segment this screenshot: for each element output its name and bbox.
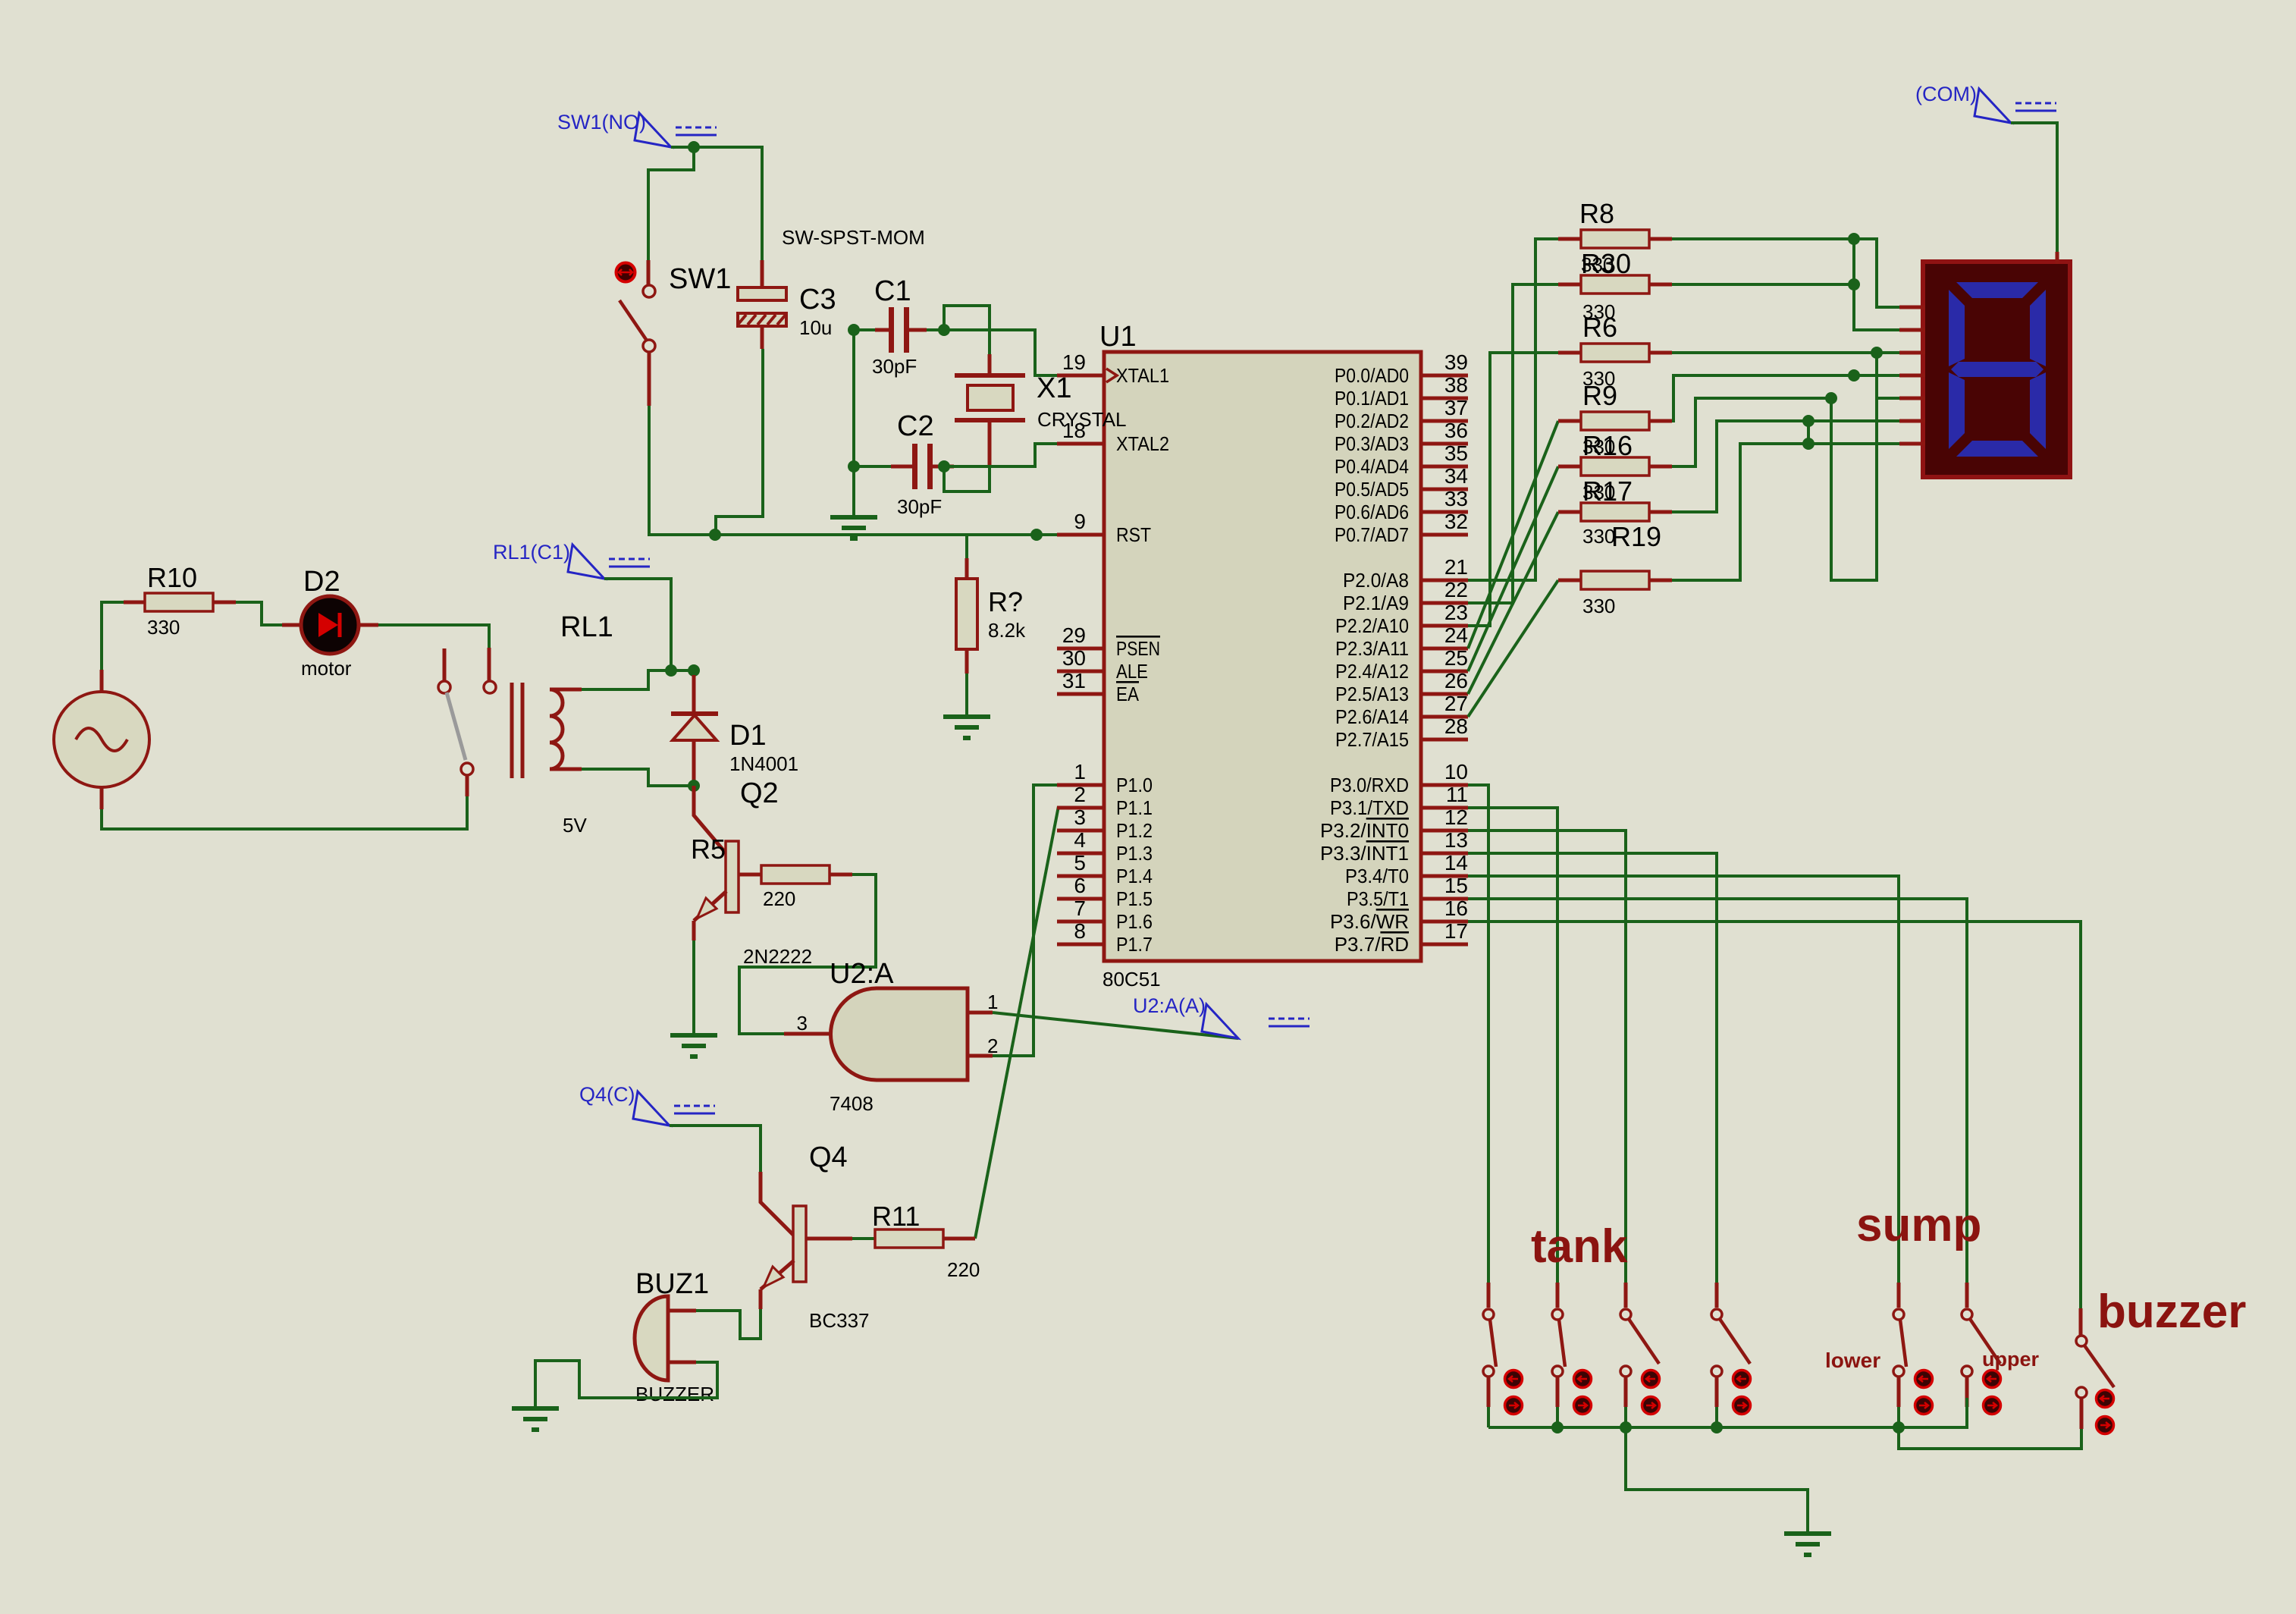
svg-text:7: 7	[1074, 896, 1086, 920]
svg-text:P0.2/AD2: P0.2/AD2	[1335, 410, 1409, 432]
svg-text:C2: C2	[897, 410, 934, 442]
wire P3.2 to tank switch 3	[1468, 831, 1626, 1283]
ground (Q2)	[670, 1035, 717, 1057]
wire SW1/C3 to RST rail	[649, 406, 1057, 535]
display segments (digit 8)	[1949, 282, 2046, 457]
svg-text:10: 10	[1444, 760, 1468, 783]
wire R10 to D2	[236, 602, 282, 625]
svg-text:16: 16	[1444, 896, 1468, 920]
svg-text:ALE: ALE	[1116, 660, 1148, 683]
svg-text:5: 5	[1074, 851, 1086, 875]
svg-text:30pF: 30pF	[897, 495, 942, 518]
transistor Q4	[793, 1206, 806, 1282]
tank switch 3	[1624, 1283, 1628, 1308]
wire probe RL1(C1) to coil/D1	[604, 579, 671, 670]
resistor R? 8.2k	[965, 535, 968, 558]
svg-text:3: 3	[797, 1012, 808, 1035]
LED D2 motor	[282, 623, 303, 627]
svg-text:P1.4: P1.4	[1116, 865, 1153, 887]
svg-text:R11: R11	[872, 1201, 920, 1232]
wire buzzer bus	[1899, 1427, 2081, 1449]
display pin stubs	[1899, 307, 1925, 444]
wire P3.0 to tank switch 1	[1468, 785, 1488, 1283]
svg-text:P2.0/A8: P2.0/A8	[1343, 569, 1409, 592]
sump upper switch	[1965, 1283, 1969, 1308]
svg-text:11: 11	[1446, 783, 1468, 806]
svg-text:R8: R8	[1579, 198, 1614, 229]
svg-text:330: 330	[1582, 525, 1615, 548]
svg-text:R10: R10	[147, 562, 197, 593]
transistor Q2	[726, 841, 739, 912]
U1 pin stubs left	[1057, 375, 1104, 944]
svg-text:2: 2	[1074, 783, 1086, 806]
wire C1 left / C2 left to ground	[854, 330, 875, 466]
svg-text:26: 26	[1444, 669, 1468, 692]
svg-text:P0.7/AD7: P0.7/AD7	[1335, 523, 1409, 546]
svg-text:25: 25	[1444, 646, 1468, 670]
svg-text:BC337: BC337	[809, 1309, 870, 1332]
svg-text:U1: U1	[1099, 321, 1137, 353]
wire AC bottom rail to relay pole	[102, 796, 467, 829]
sump lower switch	[1897, 1283, 1901, 1308]
svg-text:P2.4/A12: P2.4/A12	[1335, 660, 1409, 683]
svg-text:18: 18	[1062, 419, 1086, 442]
wire P2.3 to R9 (diagonal)	[1468, 421, 1558, 648]
svg-text:BUZ1: BUZ1	[635, 1268, 709, 1300]
wire R9 to display pin4	[1672, 375, 1899, 421]
svg-text:P1.2: P1.2	[1116, 819, 1153, 842]
svg-text:30: 30	[1062, 646, 1086, 670]
capacitor C1	[889, 307, 894, 353]
wire probe SW1(NO) node	[671, 147, 762, 260]
resistor R11	[806, 1237, 852, 1241]
wire buzzer plus to Q4 emitter	[696, 1309, 761, 1339]
svg-text:motor: motor	[301, 657, 352, 680]
svg-text:10u: 10u	[799, 316, 832, 339]
svg-text:P0.4/AD4: P0.4/AD4	[1335, 455, 1409, 478]
resistor R5	[739, 873, 761, 877]
svg-text:19: 19	[1062, 350, 1086, 374]
svg-text:P1.7: P1.7	[1116, 933, 1153, 956]
wire R6 to display pin3	[1672, 351, 1899, 354]
svg-text:22: 22	[1444, 578, 1468, 601]
svg-text:P2.5/A13: P2.5/A13	[1335, 683, 1409, 705]
wire R30 to display pin2	[1672, 283, 1854, 286]
svg-text:P0.6/AD6: P0.6/AD6	[1335, 501, 1409, 523]
svg-text:R9: R9	[1582, 380, 1617, 411]
svg-text:27: 27	[1444, 692, 1468, 715]
wire P3.5 to sump upper switch	[1468, 899, 1967, 1283]
AC source V1	[100, 670, 104, 692]
svg-text:12: 12	[1444, 805, 1468, 829]
svg-text:P2.6/A14: P2.6/A14	[1335, 705, 1409, 728]
U1 XTAL1 clock arrow	[1106, 369, 1117, 382]
wire bus to ground	[1626, 1427, 1808, 1534]
svg-text:SW1: SW1	[669, 263, 731, 295]
ground (buzzer)	[512, 1408, 559, 1430]
wire P2.5 to R17 (diagonal)	[1468, 512, 1558, 694]
svg-text:P3.4/T0: P3.4/T0	[1345, 865, 1409, 887]
svg-text:32: 32	[1444, 510, 1468, 533]
resistor R8	[1558, 237, 1581, 241]
svg-text:6: 6	[1074, 874, 1086, 897]
IC U1 80C51 body	[1104, 352, 1421, 961]
wire coil bottom / D1 / Q2 collector node	[582, 769, 688, 786]
wire P2.1 to R30	[1468, 284, 1558, 603]
tank switch 4	[1715, 1283, 1719, 1308]
svg-text:P1.6: P1.6	[1116, 910, 1153, 933]
wire P2.0 to R8	[1468, 239, 1558, 580]
wire P3.4 to sump lower switch	[1468, 876, 1899, 1283]
wire R10 left to AC source	[102, 602, 124, 670]
wire R8 to display pin1	[1672, 239, 1899, 307]
svg-text:P3.2/INT0: P3.2/INT0	[1320, 819, 1409, 842]
svg-text:30pF: 30pF	[872, 355, 917, 378]
svg-text:XTAL2: XTAL2	[1116, 432, 1169, 455]
svg-text:14: 14	[1444, 851, 1468, 875]
wire XTAL1 net	[927, 328, 944, 331]
svg-text:Q4(C): Q4(C)	[579, 1083, 635, 1106]
svg-text:4: 4	[1074, 828, 1086, 852]
svg-text:5V: 5V	[563, 814, 587, 837]
svg-text:7408: 7408	[830, 1092, 874, 1115]
wire R16 to node	[1672, 398, 1831, 466]
svg-text:D2: D2	[303, 566, 340, 598]
wire node verticals at display	[1807, 421, 1810, 444]
crystal X1	[955, 373, 1025, 378]
wire R17 to display pin6	[1672, 421, 1899, 512]
svg-text:P0.3/AD3: P0.3/AD3	[1335, 432, 1409, 455]
svg-text:R5: R5	[691, 834, 726, 865]
svg-text:U2:A(A): U2:A(A)	[1133, 994, 1206, 1017]
svg-text:buzzer: buzzer	[2097, 1286, 2246, 1338]
wire XTAL2 net	[944, 465, 954, 468]
AND gate U2.A 7408	[831, 988, 968, 1080]
svg-text:1N4001: 1N4001	[729, 752, 798, 775]
svg-text:P2.3/A11: P2.3/A11	[1335, 637, 1409, 660]
wire R19 to display pin7	[1672, 444, 1899, 580]
wire P2.4 to R16 (diagonal)	[1468, 466, 1558, 671]
svg-text:P1.3: P1.3	[1116, 842, 1153, 865]
wire probe Q4(C) to Q4 collector	[670, 1126, 761, 1172]
svg-text:1: 1	[1074, 760, 1086, 783]
svg-text:21: 21	[1444, 555, 1468, 579]
svg-text:29: 29	[1062, 623, 1086, 647]
svg-text:34: 34	[1444, 464, 1468, 488]
svg-text:31: 31	[1062, 669, 1086, 692]
svg-text:SW1(NO): SW1(NO)	[557, 111, 646, 133]
svg-text:P2.2/A10: P2.2/A10	[1335, 614, 1409, 637]
svg-text:P1.0: P1.0	[1116, 774, 1153, 796]
switch SW1	[647, 260, 651, 284]
svg-text:Q2: Q2	[740, 777, 779, 809]
svg-text:C3: C3	[799, 284, 836, 316]
svg-text:P3.6/WR: P3.6/WR	[1330, 910, 1409, 933]
svg-text:R6: R6	[1582, 312, 1617, 343]
svg-text:33: 33	[1444, 487, 1468, 510]
wire P2.2 to R6	[1468, 353, 1558, 626]
svg-text:3: 3	[1074, 805, 1086, 829]
svg-text:23: 23	[1444, 601, 1468, 624]
svg-text:R19: R19	[1611, 521, 1661, 552]
svg-text:8.2k: 8.2k	[988, 619, 1026, 642]
tank switch 2	[1556, 1283, 1560, 1308]
wire P3.1 to tank switch 2	[1468, 808, 1557, 1283]
svg-text:80C51: 80C51	[1103, 968, 1161, 991]
7-segment display body	[1923, 262, 2070, 477]
svg-text:220: 220	[947, 1258, 980, 1281]
svg-text:R?: R?	[988, 586, 1023, 617]
svg-text:BUZZER: BUZZER	[635, 1383, 714, 1405]
svg-text:2: 2	[987, 1035, 998, 1057]
svg-text:9: 9	[1074, 510, 1086, 533]
svg-text:EA: EA	[1116, 683, 1140, 705]
svg-text:P0.1/AD1: P0.1/AD1	[1335, 387, 1409, 410]
buzzer switch	[2079, 1308, 2083, 1336]
svg-text:36: 36	[1444, 419, 1468, 442]
svg-text:(COM): (COM)	[1915, 83, 1977, 105]
wire P3.3 to tank switch 4	[1468, 853, 1717, 1283]
svg-text:P3.5/T1: P3.5/T1	[1347, 887, 1409, 910]
svg-text:17: 17	[1444, 919, 1468, 943]
svg-text:39: 39	[1444, 350, 1468, 374]
wire R5 to gate pin3	[739, 875, 876, 1034]
svg-text:RST: RST	[1116, 523, 1151, 546]
svg-text:P3.1/TXD: P3.1/TXD	[1330, 796, 1409, 819]
U1 pin stubs right	[1421, 375, 1468, 944]
wire P2.6 to R19 (diagonal)	[1468, 580, 1558, 717]
svg-text:D1: D1	[729, 720, 767, 752]
svg-text:upper: upper	[1982, 1348, 2039, 1371]
svg-text:330: 330	[1582, 595, 1615, 617]
tank switch 1	[1487, 1283, 1491, 1308]
svg-text:37: 37	[1444, 396, 1468, 419]
wire D2 to relay contact	[378, 625, 489, 648]
svg-text:1: 1	[987, 991, 998, 1013]
wire buzzer minus to ground	[535, 1361, 717, 1408]
svg-text:C1: C1	[874, 275, 911, 307]
svg-text:13: 13	[1444, 828, 1468, 852]
svg-text:P3.7/RD: P3.7/RD	[1335, 933, 1409, 956]
svg-text:2N2222: 2N2222	[743, 945, 812, 968]
svg-text:28: 28	[1444, 714, 1468, 738]
wire (COM) to display top	[2011, 123, 2057, 252]
ground (crystal caps)	[830, 517, 877, 539]
wire Q2 emitter to ground	[692, 940, 695, 1035]
wire P1.1 to R11 (diagonal)	[975, 806, 1059, 1239]
capacitor C3	[761, 260, 764, 287]
svg-text:P0.0/AD0: P0.0/AD0	[1335, 364, 1409, 387]
ground (switch bus)	[1784, 1534, 1831, 1555]
svg-text:330: 330	[147, 616, 180, 639]
svg-text:P0.5/AD5: P0.5/AD5	[1335, 478, 1409, 501]
svg-text:RL1(C1): RL1(C1)	[493, 541, 570, 564]
ground (R?)	[943, 717, 990, 738]
svg-text:U2:A: U2:A	[830, 958, 894, 990]
svg-text:P2.1/A9: P2.1/A9	[1343, 592, 1409, 614]
svg-text:38: 38	[1444, 373, 1468, 397]
svg-text:RL1: RL1	[560, 611, 613, 643]
wire gate pin1 to probe U2:A(A)	[993, 1013, 1238, 1038]
svg-text:P3.3/INT1: P3.3/INT1	[1320, 842, 1409, 865]
svg-text:220: 220	[763, 887, 795, 910]
svg-text:24: 24	[1444, 623, 1468, 647]
svg-text:Q4: Q4	[809, 1141, 848, 1173]
capacitor C2	[912, 444, 917, 489]
svg-text:PSEN: PSEN	[1116, 637, 1160, 660]
wire switch common bus	[1488, 1398, 1967, 1427]
svg-text:P3.0/RXD: P3.0/RXD	[1330, 774, 1409, 796]
wire P3.6 to buzzer switch	[1468, 922, 2081, 1308]
svg-text:8: 8	[1074, 919, 1086, 943]
svg-text:XTAL1: XTAL1	[1116, 364, 1169, 387]
svg-text:sump: sump	[1856, 1199, 1981, 1251]
svg-text:SW-SPST-MOM: SW-SPST-MOM	[782, 226, 925, 249]
relay switch contacts	[443, 648, 447, 680]
svg-text:P2.7/A15: P2.7/A15	[1335, 728, 1409, 751]
svg-text:35: 35	[1444, 441, 1468, 465]
svg-text:lower: lower	[1825, 1349, 1880, 1372]
wire gate pin2 to P1.0	[993, 785, 1057, 1056]
svg-text:15: 15	[1444, 874, 1468, 897]
svg-text:tank: tank	[1531, 1220, 1628, 1273]
resistor R10	[145, 593, 213, 611]
svg-text:P1.5: P1.5	[1116, 887, 1153, 910]
svg-text:P1.1: P1.1	[1116, 796, 1153, 819]
buzzer BUZ1	[635, 1296, 668, 1380]
diode D1	[692, 675, 696, 714]
